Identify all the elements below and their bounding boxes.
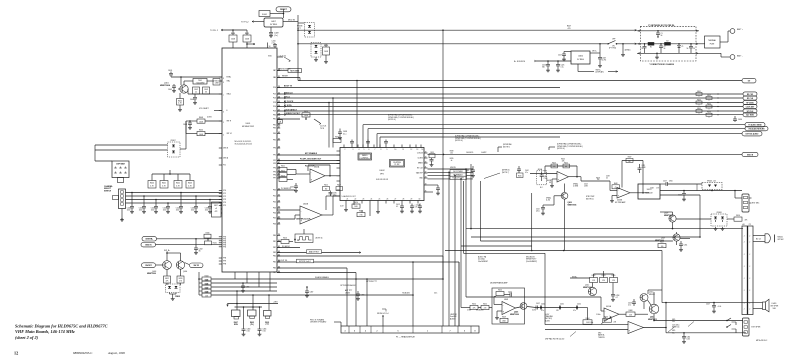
- capacitor C442 cluster: [517, 168, 521, 170]
- node UNSWB+ oval: [142, 237, 157, 241]
- capacitor C434: [294, 185, 298, 187]
- svg-text:MMBT3906: MMBT3906: [147, 273, 156, 275]
- resistor R431: [207, 239, 209, 241]
- svg-text:470: 470: [568, 28, 571, 30]
- wire bus drop 2: [332, 98, 334, 148]
- ground filter: [656, 53, 658, 55]
- svg-text:1000: 1000: [151, 210, 155, 212]
- capacitor C405: [172, 85, 176, 87]
- svg-text:PB6: PB6: [273, 268, 276, 270]
- svg-text:U410: U410: [647, 189, 652, 191]
- svg-text:PG4: PG4: [273, 213, 276, 215]
- wire U411A output: [619, 313, 626, 315]
- op-amp U409B: [557, 172, 569, 183]
- svg-text:PG3: PG3: [273, 208, 276, 210]
- ground channel select: [121, 209, 123, 219]
- svg-text:R422: R422: [281, 171, 285, 173]
- svg-text:PC0: PC0: [223, 190, 226, 192]
- svg-text:56: 56: [687, 48, 689, 50]
- ferrite bead E1: [648, 42, 654, 45]
- transistor Q403: [163, 261, 172, 270]
- zener VR1 filter: [678, 44, 680, 46]
- svg-text:10K: 10K: [205, 295, 208, 297]
- svg-text:C4: C4: [693, 48, 695, 50]
- svg-text:R462: R462: [707, 95, 711, 97]
- wire U409A out: [630, 192, 643, 194]
- svg-text:50xOHRESP: 50xOHRESP: [478, 261, 489, 263]
- svg-text:J-240C: J-240C: [481, 151, 487, 154]
- resistor R449b: [500, 318, 508, 322]
- wire below U402: [345, 204, 347, 209]
- svg-text:C428: C428: [602, 58, 606, 60]
- svg-text:R424: R424: [354, 202, 358, 204]
- svg-text:4.7u: 4.7u: [628, 305, 631, 307]
- wire lower audio lines: [654, 320, 743, 322]
- regulator U407: [264, 18, 283, 27]
- svg-text:R404: R404: [199, 130, 203, 132]
- resistor R423: [279, 178, 287, 182]
- svg-text:R430: R430: [206, 232, 210, 234]
- wire speaker2 line: [662, 302, 763, 304]
- trimmer R466: [603, 319, 612, 323]
- transistor Q406: [520, 303, 527, 310]
- ic U402 bottom pins: [345, 201, 347, 204]
- svg-text:11: 11: [403, 149, 405, 151]
- wire y297 line: [466, 296, 601, 298]
- svg-text:EXT MIC AUDIO: EXT MIC AUDIO: [746, 132, 759, 135]
- svg-text:ENVIO LO: ENVIO LO: [284, 92, 293, 94]
- svg-text:39,41,44,45,46,47,53,54: 39,41,44,45,46,47,53,54: [235, 144, 252, 146]
- svg-text:59: 59: [278, 234, 280, 236]
- capacitor C432: [195, 239, 197, 248]
- svg-text:BD 14: BD 14: [756, 239, 761, 241]
- svg-text:EXT MIC: EXT MIC: [752, 203, 760, 205]
- capacitor C420: [131, 193, 133, 207]
- ic U401 left pins: [219, 76, 222, 78]
- svg-text:R432: R432: [165, 278, 169, 280]
- connector EXT MIC: [742, 194, 749, 212]
- svg-text:31: 31: [425, 167, 427, 169]
- speaker internal bottom: [763, 302, 766, 310]
- svg-text:PH6: PH6: [223, 258, 226, 260]
- capacitor C447: [712, 305, 716, 307]
- svg-text:C2: C2: [664, 46, 666, 48]
- svg-text:R447: R447: [628, 157, 632, 159]
- svg-text:1/16: 1/16: [247, 331, 250, 333]
- svg-text:C452: C452: [536, 209, 540, 211]
- svg-text:C465: C465: [263, 329, 267, 331]
- svg-text:C447: C447: [706, 304, 710, 306]
- wire slave enable: [277, 278, 443, 280]
- wire P1 drop 413: [412, 262, 414, 326]
- svg-text:R463: R463: [697, 99, 701, 101]
- svg-text:PF5: PF5: [273, 172, 276, 174]
- diode pack CR402 dashed: [305, 23, 315, 38]
- svg-text:(NOTE 4): (NOTE 4): [455, 140, 463, 142]
- wire MOD IN line: [428, 153, 743, 155]
- connector DSP MEM: [112, 161, 129, 178]
- svg-text:R442: R442: [176, 183, 180, 185]
- svg-text:C436: C436: [738, 119, 742, 121]
- wire top rail 2 switched B+: [298, 43, 607, 45]
- svg-text:R465: R465: [697, 108, 701, 110]
- resistor bus ALT MON: [706, 113, 712, 116]
- wire CR407 left: [95, 144, 168, 146]
- svg-text:MOD IN: MOD IN: [288, 19, 295, 21]
- svg-text:C462: C462: [541, 303, 545, 305]
- svg-text:CR405: CR405: [175, 295, 180, 298]
- wire pot rail lower: [235, 306, 263, 308]
- svg-text:CURRENT DETECT: CURRENT DETECT: [284, 113, 301, 115]
- svg-text:RF CLOCK: RF CLOCK: [284, 101, 294, 103]
- filter box dashed: [640, 26, 696, 61]
- capacitor C426: [209, 200, 211, 207]
- svg-text:PC4: PC4: [223, 202, 226, 204]
- svg-text:14: 14: [422, 149, 424, 151]
- svg-text:OPTION RX AUDIO: OPTION RX AUDIO: [340, 284, 357, 287]
- wire U409B inputs: [530, 173, 557, 175]
- svg-text:MOD IN: MOD IN: [747, 154, 754, 156]
- svg-text:SW 5V: SW 5V: [193, 265, 199, 267]
- svg-text:47K: 47K: [473, 308, 476, 310]
- transistor Q412: [588, 287, 596, 295]
- capacitor C425: [557, 61, 559, 65]
- svg-text:R468: R468: [629, 310, 633, 312]
- wire bus ALT MON: [277, 114, 743, 116]
- capacitor C4 filter: [690, 44, 692, 47]
- wire audio mid chain: [580, 177, 582, 181]
- diode VR401: [702, 183, 722, 190]
- svg-text:C425: C425: [191, 208, 195, 210]
- capacitor C421: [143, 196, 145, 207]
- resistor R413: [277, 118, 300, 120]
- svg-text:R466: R466: [604, 317, 608, 319]
- svg-text:C424: C424: [176, 208, 180, 210]
- wire U410 out2: [660, 194, 700, 196]
- svg-text:TX AUDIO: TX AUDIO: [402, 292, 411, 295]
- node SW 5V oval: [190, 263, 204, 268]
- svg-text:5V REG: 5V REG: [270, 24, 278, 26]
- resistor R448: [199, 294, 202, 296]
- svg-text:C422: C422: [151, 208, 155, 210]
- wire R428 to line: [325, 44, 327, 47]
- wire EXTAL: [171, 76, 222, 78]
- svg-text:2.2: 2.2: [195, 92, 197, 94]
- svg-text:0.1u: 0.1u: [561, 67, 564, 69]
- svg-text:2.43v (NC): 2.43v (NC): [672, 325, 680, 327]
- capacitor C413: [411, 204, 413, 207]
- svg-text:270: 270: [484, 308, 487, 310]
- svg-text:(1.2K): (1.2K): [546, 200, 551, 202]
- svg-text:Q404: Q404: [183, 271, 187, 273]
- regulator U406: [571, 51, 590, 64]
- resistor R463: [600, 278, 608, 283]
- svg-text:MMBT3906: MMBT3906: [568, 205, 577, 207]
- svg-text:C427: C427: [558, 55, 562, 57]
- wire U411B inputs: [545, 324, 628, 326]
- svg-text:R435: R435: [359, 211, 363, 213]
- svg-text:1000: 1000: [139, 210, 143, 212]
- wire drop x466: [465, 169, 467, 297]
- node MIC AUDIO oval: [742, 132, 762, 136]
- svg-text:R443: R443: [188, 183, 192, 185]
- svg-text:R448: R448: [614, 183, 618, 185]
- capacitor C463 pot: [243, 307, 245, 329]
- svg-text:24K: 24K: [628, 161, 631, 163]
- ic U401 right pins: [277, 70, 280, 72]
- svg-text:(NOTE 7): (NOTE 7): [502, 172, 509, 174]
- svg-text:PF3: PF3: [273, 163, 276, 165]
- svg-text:57: 57: [278, 216, 280, 218]
- capacitor C2 filter: [660, 44, 662, 46]
- svg-text:PE5: PE5: [273, 140, 276, 142]
- wire U409B output: [569, 176, 582, 178]
- svg-text:C408: C408: [183, 124, 187, 126]
- svg-text:32: 32: [425, 172, 427, 174]
- wire Q408 vertical: [564, 199, 566, 250]
- svg-text:RESET: RESET: [280, 9, 287, 11]
- svg-text:R437: R437: [214, 205, 218, 207]
- capacitor C412: [401, 204, 403, 207]
- connector channel select: [119, 189, 126, 209]
- svg-text:4.85V: 4.85V: [207, 117, 212, 119]
- svg-text:RF CLK: RF CLK: [747, 98, 754, 100]
- resistor R464: [583, 320, 592, 324]
- svg-text:PH1: PH1: [223, 239, 226, 241]
- wire U409A in2: [612, 195, 617, 197]
- wire gnd branch after switch: [622, 44, 624, 53]
- svg-text:4.7u: 4.7u: [541, 310, 544, 312]
- wire TX AUDIO SEND: [363, 124, 745, 126]
- svg-text:5.0v: 5.0v: [672, 321, 675, 323]
- svg-text:C423: C423: [163, 208, 167, 210]
- svg-text:PB4: PB4: [273, 256, 276, 258]
- capacitor C403: [203, 87, 210, 94]
- svg-text:1/16: 1/16: [263, 331, 266, 333]
- node GND IN oval: [141, 243, 156, 247]
- svg-text:(DISPLAY): (DISPLAY): [596, 71, 605, 74]
- wire CR402 top: [297, 15, 299, 81]
- svg-text:INT MIC: INT MIC: [778, 239, 785, 241]
- wire P1 drop 459: [458, 262, 460, 326]
- svg-text:34: 34: [425, 184, 427, 186]
- wire CR407 right: [180, 148, 186, 150]
- svg-text:Y401: Y401: [198, 80, 202, 82]
- svg-text:(sheet 2 of 2): (sheet 2 of 2): [15, 335, 39, 340]
- wire alert tones: [277, 252, 360, 254]
- svg-text:20K: 20K: [614, 322, 617, 324]
- svg-text:6880902Z93-C: 6880902Z93-C: [73, 351, 92, 355]
- svg-text:+100: +100: [718, 306, 722, 308]
- svg-text:LOCK DETECT: LOCK DETECT: [284, 109, 298, 111]
- svg-text:R461: R461: [697, 91, 701, 93]
- svg-text:FROM U41 1-4: FROM U41 1-4: [377, 313, 389, 315]
- svg-text:33: 33: [205, 92, 207, 94]
- svg-text:PH0: PH0: [223, 237, 226, 239]
- resistor R441: [160, 181, 168, 189]
- svg-text:PB1: PB1: [273, 241, 276, 243]
- wire feedback U409B: [545, 165, 577, 167]
- svg-text:PG2: PG2: [273, 202, 276, 204]
- svg-text:R439: R439: [450, 158, 454, 160]
- capacitor C426: [547, 61, 549, 65]
- svg-text:56: 56: [661, 35, 663, 37]
- svg-text:(NOTE 3): (NOTE 3): [316, 237, 323, 239]
- svg-text:56: 56: [664, 48, 666, 50]
- wire P1 drop 356: [355, 273, 357, 327]
- svg-text:C464: C464: [687, 337, 691, 339]
- op-amp U411B: [628, 322, 644, 334]
- svg-text:AUDIO: AUDIO: [450, 317, 456, 320]
- ic U401 bottom pin stubs: [234, 272, 236, 279]
- wire filter rail mid: [637, 43, 699, 45]
- svg-text:240PF: 240PF: [642, 167, 646, 169]
- svg-text:PH8: PH8: [223, 264, 226, 266]
- svg-text:180K: 180K: [502, 321, 506, 323]
- svg-text:R449: R449: [502, 317, 506, 319]
- svg-text:0.1u: 0.1u: [343, 133, 346, 135]
- wire R419 leads: [246, 30, 248, 35]
- capacitor C466 ladder: [242, 283, 244, 286]
- svg-text:33: 33: [425, 177, 427, 179]
- svg-text:36: 36: [199, 251, 201, 253]
- svg-text:SWITCH: SWITCH: [104, 190, 112, 192]
- capacitor C438: [338, 131, 342, 133]
- svg-text:C457: C457: [663, 181, 667, 183]
- node MOD IN oval: [742, 152, 758, 156]
- svg-text:2.2u: 2.2u: [272, 43, 275, 45]
- svg-text:47K: 47K: [215, 211, 218, 213]
- svg-text:OFF: OFF: [612, 38, 615, 40]
- ic U402 left pins: [337, 150, 341, 152]
- svg-text:R441: R441: [162, 183, 166, 185]
- svg-text:5R B+: 5R B+: [592, 51, 597, 53]
- svg-text:27: 27: [395, 199, 397, 201]
- svg-text:4706: 4706: [669, 181, 673, 183]
- svg-text:PJ2: PJ2: [223, 165, 226, 167]
- wire Q411 down: [653, 314, 655, 321]
- svg-text:0.47u: 0.47u: [532, 310, 536, 312]
- wire channel bus 2: [126, 195, 223, 197]
- resistor R433 under Q404: [177, 276, 184, 283]
- resistor R468: [626, 312, 635, 316]
- subblock attenuator: [390, 160, 405, 168]
- svg-text:C454: C454: [584, 184, 588, 186]
- svg-text:+5R B: +5R B: [273, 301, 277, 303]
- wire U405B output: [322, 214, 333, 216]
- capacitor C422: [155, 200, 157, 207]
- transistor Q410: [640, 294, 648, 302]
- svg-text:25: 25: [379, 199, 381, 201]
- wire to XTAL pin: [220, 80, 222, 82]
- svg-text:RX: RX: [330, 194, 332, 196]
- svg-text:23: 23: [363, 199, 365, 201]
- svg-text:R423: R423: [281, 176, 285, 178]
- svg-text:4.7u: 4.7u: [466, 172, 469, 174]
- node LOCK DET oval: [743, 104, 757, 108]
- resistor R462: [590, 278, 598, 283]
- svg-text:ADA DETECT: ADA DETECT: [309, 251, 320, 254]
- resistor R422: [279, 173, 287, 177]
- svg-text:R450: R450: [498, 290, 502, 292]
- svg-text:C426: C426: [205, 208, 209, 210]
- capacitor C404: [194, 94, 196, 97]
- terminal BATT+: [730, 29, 735, 34]
- wire de-emph input: [461, 307, 470, 309]
- svg-text:R443: R443: [552, 162, 556, 164]
- capacitor C458: [611, 294, 615, 296]
- svg-text:12: 12: [411, 149, 413, 151]
- svg-text:RX CSX: RX CSX: [747, 94, 754, 96]
- svg-text:R445: R445: [205, 279, 209, 281]
- capacitor C468: [357, 291, 359, 294]
- svg-text:47K: 47K: [166, 281, 169, 283]
- wire Q409 wires: [676, 218, 711, 220]
- wire unswb+: [157, 238, 223, 240]
- svg-text:CLINGI: CLINGI: [417, 158, 423, 160]
- capacitor C428: [599, 53, 601, 58]
- capacitor C408: [188, 122, 192, 124]
- wire RX AUDIO RETURN: [368, 128, 745, 130]
- svg-text:C466: C466: [246, 287, 250, 289]
- wire pot drop 2: [252, 295, 254, 310]
- svg-text:ON/OFF: ON/OFF: [145, 265, 153, 267]
- svg-text:MC68HC11K2: MC68HC11K2: [242, 126, 254, 128]
- svg-text:MMBT3906: MMBT3906: [583, 287, 592, 289]
- wire audio line 237: [471, 236, 700, 238]
- svg-text:SPI LO: SPI LO: [284, 96, 290, 98]
- svg-text:4.7u: 4.7u: [415, 207, 418, 209]
- svg-text:(4.7V): (4.7V): [602, 60, 607, 62]
- svg-text:R447: R447: [205, 287, 209, 289]
- capacitor C435b: [329, 192, 333, 194]
- svg-text:100: 100: [450, 153, 453, 155]
- ground CR403: [315, 58, 317, 60]
- svg-text:360: 360: [542, 67, 545, 69]
- svg-text:C446: C446: [678, 195, 682, 197]
- wire vco feed vertical: [356, 81, 358, 148]
- svg-text:PD4: PD4: [273, 106, 276, 108]
- svg-text:PF6: PF6: [273, 175, 276, 177]
- node RESET oval: [276, 7, 291, 12]
- svg-text:R454: R454: [472, 304, 476, 306]
- capacitor C423: [167, 203, 169, 207]
- wire right vertical: [661, 251, 663, 303]
- svg-text:53: 53: [278, 194, 280, 196]
- resistor R450: [496, 292, 504, 296]
- wire MIC AUDIO: [377, 133, 742, 135]
- wire P2 pin3: [753, 241, 765, 243]
- svg-text:(PL): (PL): [250, 324, 254, 326]
- svg-text:PB3: PB3: [273, 252, 276, 254]
- wire audio line 246: [461, 245, 532, 247]
- ground under C409: [270, 34, 272, 36]
- capacitor C424: [180, 193, 182, 207]
- svg-text:C404: C404: [190, 99, 194, 101]
- svg-text:C450: C450: [577, 303, 581, 305]
- svg-text:50 k: 50 k: [434, 293, 437, 295]
- svg-text:10: 10: [395, 149, 397, 151]
- svg-text:PE4: PE4: [273, 133, 276, 135]
- svg-text:4S: 4S: [549, 182, 551, 184]
- svg-text:(NOTE 7): (NOTE 7): [503, 146, 510, 148]
- svg-text:OPTION PTT: OPTION PTT: [366, 281, 378, 283]
- svg-text:PD2: PD2: [273, 98, 276, 100]
- op-amp U405B center clock: [300, 206, 322, 224]
- svg-text:R431: R431: [213, 243, 217, 245]
- svg-text:10K: 10K: [562, 160, 565, 162]
- svg-text:R413: R413: [304, 111, 308, 113]
